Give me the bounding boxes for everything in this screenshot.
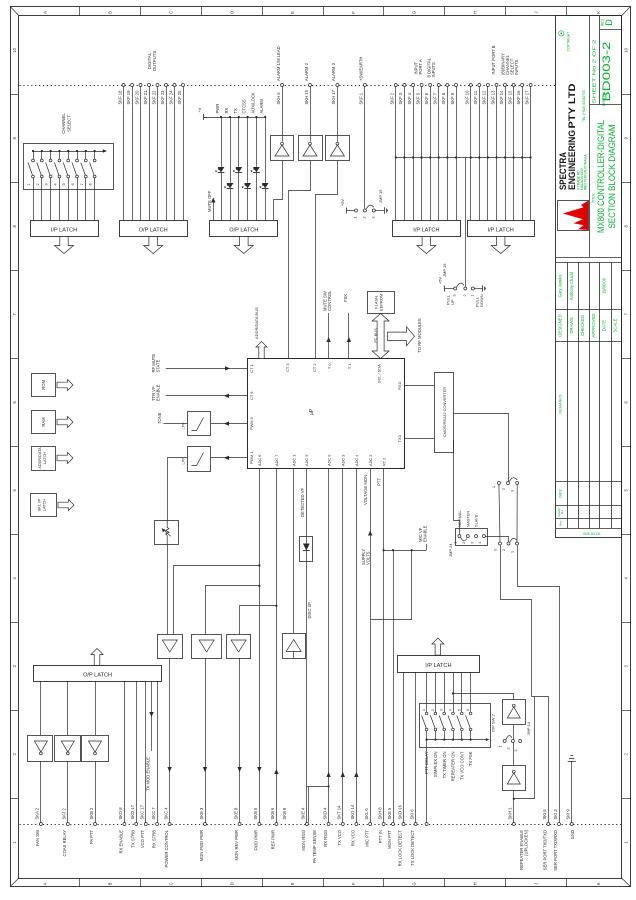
svg-text:ADC 2: ADC 2 [368, 455, 373, 466]
svg-text:TX STRB: TX STRB [130, 830, 135, 848]
svg-text:SKH 8: SKH 8 [377, 807, 382, 820]
wire switch 2 to I/P latch [41, 178, 43, 220]
svg-text:Gary Janeks: Gary Janeks [558, 275, 563, 298]
svg-text:SKE 4: SKE 4 [301, 807, 306, 820]
svg-text:ADC 3: ADC 3 [341, 455, 346, 466]
repeater enable buffer upper [503, 700, 526, 725]
svg-text:SKF 23: SKF 23 [160, 90, 165, 105]
svg-text:ALARM 2: ALARM 2 [304, 62, 309, 81]
wire SKH 17 to buffer [337, 87, 339, 142]
wire LPF to PWM 1 [211, 457, 247, 459]
wire repeater enable to buffer [454, 694, 514, 700]
svg-text:JMP 19: JMP 19 [442, 263, 447, 277]
svg-text:3: 3 [470, 542, 474, 544]
svg-text:LPF: LPF [181, 422, 186, 430]
svg-text:K: K [596, 882, 601, 885]
connector pin SKF 16 [521, 84, 524, 87]
dotted connector boundary line bottom [20, 824, 622, 826]
svg-text:19/06/06: 19/06/06 [602, 277, 607, 294]
svg-text:SECTION BLOCK DIAGRAM: SECTION BLOCK DIAGRAM [607, 125, 618, 229]
connector pin SKF 6 [429, 84, 432, 87]
connector pin SKF 23 [165, 84, 168, 87]
svg-text:B: B [108, 11, 113, 14]
wire switch 1 to I/P latch [33, 178, 35, 220]
svg-text:RX VCO: RX VCO [351, 829, 356, 846]
svg-text:GND: GND [570, 830, 575, 839]
svg-text:WESTERN AUSTRALIA: WESTERN AUSTRALIA [584, 154, 588, 190]
channel select switch 6 [76, 150, 78, 152]
svg-text:µP: µP [309, 408, 315, 415]
svg-text:VCO PTT: VCO PTT [140, 830, 145, 849]
wire uP ADC3 to TX VCO pin [342, 468, 344, 823]
svg-text:3: 3 [493, 549, 497, 551]
bus arrow below O/P latch (digital outputs) [144, 237, 163, 254]
svg-text:MON FWD PWR: MON FWD PWR [199, 830, 204, 861]
svg-text:SKI 3: SKI 3 [553, 809, 558, 820]
svg-text:SCL / SDA: SCL / SDA [377, 364, 382, 383]
channel select switch 8 [94, 150, 96, 152]
svg-text:SKL I/P: SKL I/P [38, 498, 42, 511]
svg-text:SELECT: SELECT [67, 115, 72, 132]
wire SKF 12 to I/P latch B [487, 87, 489, 221]
svg-text:POWER CONTROL: POWER CONTROL [164, 829, 169, 867]
wire RX LOCK DETECT to connector [403, 672, 405, 822]
connector pin SKB 5 FWD PWR [258, 823, 261, 826]
svg-text:T 1: T 1 [347, 364, 352, 370]
svg-text:B: B [108, 882, 113, 885]
wire ADC6 node to buffer A input [174, 566, 260, 635]
svg-text:SKL 6: SKL 6 [364, 808, 369, 820]
svg-text:C: C [169, 11, 174, 14]
svg-text:TX MOD ENABLE: TX MOD ENABLE [145, 757, 150, 791]
svg-text:SIZE A3 12L: SIZE A3 12L [583, 532, 601, 536]
connector pin SKD 8 RX ENABLE [123, 823, 126, 826]
svg-text:O/P LATCH: O/P LATCH [139, 228, 168, 234]
svg-text:ENABLE: ENABLE [422, 525, 427, 542]
wire SKF 22 to O/P latch [157, 87, 159, 221]
DIP common line [427, 739, 487, 741]
wire uP ADC5 to clamp diode [306, 468, 308, 536]
connector pin SKC 4 POWER CONTROL [168, 823, 171, 826]
connector pin SKF 18 [122, 84, 125, 87]
svg-text:LPF: LPF [181, 457, 186, 465]
svg-text:ENABLE: ENABLE [156, 384, 161, 401]
svg-text:I/P LATCH: I/P LATCH [413, 228, 439, 234]
connector pin SKF 9 [455, 84, 458, 87]
connector pin SKF 3 [403, 84, 406, 87]
svg-text:1: 1 [422, 709, 426, 711]
wire SKF 3 to I/P latch A [404, 87, 406, 221]
svg-text:ADC 0: ADC 0 [326, 454, 331, 466]
clamp diode box [300, 537, 313, 562]
bus arrow above O/P latch (control) [91, 649, 103, 666]
svg-text:+V: +V [198, 107, 202, 112]
svg-text:MON RSSI: MON RSSI [301, 830, 306, 851]
connector pin SKF 19 [131, 84, 134, 87]
wire buffer C output to MON REV PWR pin [239, 658, 241, 823]
svg-text:TX FSK: TX FSK [468, 751, 473, 766]
svg-text:2: 2 [431, 709, 435, 711]
svg-text:3: 3 [511, 490, 515, 492]
wire SKF 8 to I/P latch A [447, 87, 449, 221]
wire DISC I/P to connector [306, 562, 308, 823]
svg-text:RX STRB: RX STRB [151, 830, 156, 848]
svg-text:1: 1 [454, 542, 458, 544]
svg-text:SKF 10: SKF 10 [465, 90, 470, 105]
svg-text:+5V: +5V [439, 277, 443, 284]
wire SKF 17 to I/P latch B [530, 87, 532, 221]
svg-text:SKD 17: SKD 17 [130, 804, 135, 819]
RAM [32, 411, 56, 434]
svg-text:J: J [533, 883, 538, 885]
wire COAX RELAY buffer to connector [67, 761, 69, 822]
connector pin SKF 10 [469, 84, 472, 87]
svg-text:SKF 19: SKF 19 [126, 90, 131, 105]
svg-text:ALARM 3: ALARM 3 [331, 62, 336, 81]
svg-text:DISC I/P: DISC I/P [307, 602, 312, 618]
svg-text:ADC 1: ADC 1 [291, 455, 296, 466]
svg-text:10: 10 [624, 47, 629, 52]
svg-text:SKF 8: SKF 8 [441, 92, 446, 104]
PA TEMP SENSE stub wire [308, 786, 310, 822]
jumper JMP 15 [347, 210, 351, 212]
svg-text:4: 4 [478, 542, 482, 544]
channel select switch 5 [67, 150, 69, 152]
svg-text:DESIGNED: DESIGNED [558, 314, 563, 336]
svg-text:COAX RELAY: COAX RELAY [62, 830, 67, 857]
svg-text:MASTER: MASTER [465, 511, 470, 527]
svg-text:MUTE OFF: MUTE OFF [207, 190, 212, 212]
wire converter to JMP24 pin1 [454, 441, 460, 535]
connector pin SKD 16 RX LOCK DETECT [402, 823, 405, 826]
svg-text:SKC 17: SKC 17 [140, 804, 145, 819]
alarm3 buffer output wire to uP CT2 [316, 161, 338, 359]
branch DISC I/P to ADC0 wire [306, 786, 328, 788]
svg-text:PTY LTD: PTY LTD [567, 83, 578, 128]
svg-text:SER PORT TXD/TXD: SER PORT TXD/TXD [543, 830, 548, 870]
svg-text:SKB 6: SKB 6 [270, 807, 275, 820]
svg-text:ADDR/DATA BUS: ADDR/DATA BUS [254, 307, 259, 339]
microprocessor U5 [248, 359, 405, 469]
wire upper pin3 to lower pin1 [516, 485, 518, 543]
svg-text:SKF 4: SKF 4 [407, 92, 412, 104]
svg-text:COPYRIGHT: COPYRIGHT [566, 32, 570, 52]
svg-text:SKT 14: SKT 14 [337, 805, 342, 820]
PTT common node line [384, 550, 426, 552]
svg-text:SKF 5: SKF 5 [415, 92, 420, 104]
connector pin SKI 3 SER PORT TXD/RXD [558, 823, 561, 826]
wire TX LOCK DETECT to connector [415, 672, 417, 822]
connector pin SKF 12 [486, 84, 489, 87]
border corner diagonals [10, 6, 19, 16]
wire uP RT2 PTT down to PTT node [383, 468, 385, 550]
svg-text:4: 4 [449, 709, 453, 711]
svg-text:2: 2 [507, 748, 511, 750]
connector pin SKF 7 [437, 84, 440, 87]
connector pin SKF 2 [394, 84, 397, 87]
svg-text:TX LOCK DETECT: TX LOCK DETECT [410, 830, 415, 866]
O/P latch (LED indicators) [210, 221, 278, 237]
title block column dividers (lower) [567, 262, 569, 528]
connector pin SKF 17 [529, 84, 532, 87]
+V supply rail for LEDs [204, 117, 208, 119]
svg-text:4: 4 [53, 183, 57, 185]
svg-text:PORT A: PORT A [418, 59, 423, 74]
wire latch to FAN SW buffer [40, 681, 42, 735]
I/P latch (channel select) [31, 221, 99, 237]
svg-text:SIMPLEX ON: SIMPLEX ON [433, 752, 438, 778]
svg-text:No: No [560, 510, 564, 514]
attenuator (level pot) [155, 521, 179, 545]
svg-text:SKF 15: SKF 15 [507, 90, 512, 105]
svg-text:DRG No: DRG No [602, 92, 606, 106]
connector pin SKF 14 [504, 84, 507, 87]
wire SKF 11 to I/P latch B [479, 87, 481, 221]
svg-text:REMARKS: REMARKS [558, 394, 563, 414]
svg-text:ROM: ROM [41, 379, 46, 389]
svg-text:CT 3: CT 3 [285, 364, 290, 372]
grid reference numbers left/right edges [10, 94, 19, 96]
svg-text:FSK: FSK [343, 294, 348, 302]
wire SKF 7 to I/P latch A [438, 87, 440, 221]
connector pin SKF 8 [446, 84, 449, 87]
svg-text:MIC PTT: MIC PTT [364, 830, 369, 847]
jumper (serial) upper [497, 482, 500, 485]
title block vertical dividers [589, 16, 591, 257]
svg-text:SKF 18: SKF 18 [117, 90, 122, 105]
svg-text:DIP SW 2: DIP SW 2 [491, 713, 496, 731]
svg-text:PTT: PTT [377, 478, 382, 486]
svg-text:SKF 13: SKF 13 [490, 90, 495, 105]
connector pin SKF 20 [139, 84, 142, 87]
svg-text:SKH 1: SKH 1 [508, 807, 513, 820]
CMOS/RS232 converter U7 [435, 373, 454, 453]
flash eeprom U6 [368, 292, 395, 314]
svg-text:G: G [412, 882, 417, 885]
svg-text:1: 1 [27, 183, 31, 185]
wire attenuator to line buffer A [167, 544, 169, 634]
svg-text:RX LOCK DETECT: RX LOCK DETECT [398, 830, 403, 867]
svg-text:SKH 5: SKH 5 [276, 92, 281, 105]
svg-text:INPUTS: INPUTS [431, 62, 436, 78]
connector pin SKF 4 [412, 84, 415, 87]
ground symbol (SKI 9) [571, 761, 573, 823]
connector pin SKF 25 [182, 84, 185, 87]
wire latch to DIP switch 3 [444, 672, 446, 712]
svg-text:D: D [229, 11, 234, 14]
svg-text:SKD 4: SKD 4 [322, 807, 327, 820]
channel select switch 7 [85, 150, 87, 152]
I/P latch (input port B) [468, 221, 535, 237]
svg-text:SKH 15: SKH 15 [304, 89, 309, 104]
wire PTT IN to connector [383, 550, 385, 822]
svg-text:10: 10 [12, 47, 17, 52]
svg-text:TEL (+618) 92482755: TEL (+618) 92482755 [582, 90, 586, 122]
svg-text:AUX/LOCK: AUX/LOCK [250, 92, 255, 113]
svg-text:RX: RX [224, 107, 229, 113]
svg-text:CT 2: CT 2 [312, 364, 317, 372]
wire lower pin3 to SER PORT TXD/TXD [501, 546, 532, 697]
svg-text:MON PTT: MON PTT [387, 830, 392, 849]
output buffer PA PTT [82, 736, 109, 762]
svg-text:TITLE: TITLE [592, 193, 596, 203]
svg-text:3: 3 [453, 295, 457, 297]
svg-text:3: 3 [514, 750, 518, 752]
wire uP ADC4 to RX VCO pin [356, 468, 358, 823]
repeater enable buffer lower [503, 766, 526, 791]
svg-text:NORMAL: NORMAL [457, 510, 462, 527]
junction repeater enable [452, 692, 454, 694]
wire upper pin1 to lower pin3 [499, 485, 500, 543]
svg-text:UP: UP [450, 299, 455, 305]
svg-text:2: 2 [463, 295, 467, 297]
connector pin SKC 7 RX STRB [156, 823, 159, 826]
connector pin SKF 24 [173, 84, 176, 87]
MIC VF ENABLE stub [426, 544, 428, 550]
svg-text:A: A [42, 882, 47, 885]
wire RX STRB to connector [157, 681, 159, 822]
svg-text:SCALE: SCALE [613, 318, 618, 332]
alarm1 buffer output wire to LED latch [274, 161, 283, 221]
svg-text:I/P LATCH: I/P LATCH [425, 663, 451, 669]
wire SKH 5 to buffer [282, 87, 284, 142]
svg-text:SKF 21: SKF 21 [143, 90, 148, 105]
svg-text:SKB 8: SKB 8 [282, 807, 287, 820]
svg-text:RXD: RXD [397, 381, 402, 389]
svg-text:G: G [412, 11, 417, 14]
svg-text:CT 1: CT 1 [249, 364, 254, 372]
buffer U3 (ALARM 3) [326, 136, 350, 161]
wire SKF 1 to JMP15 pin 2 [364, 87, 366, 209]
svg-text:LATCH: LATCH [43, 499, 47, 511]
svg-text:SKF 16: SKF 16 [516, 90, 521, 105]
svg-text:SKB 2: SKB 2 [89, 807, 94, 820]
connector pin SKI 6 TX LOCK DETECT [414, 823, 417, 826]
svg-text:ADC 4: ADC 4 [354, 454, 359, 466]
wire ADC6 node to buffer B input [206, 586, 260, 635]
connector pin SKH 1 REPEATER ENABLE [512, 823, 515, 826]
svg-text:2: 2 [36, 183, 40, 185]
svg-text:VOLTS: VOLTS [365, 551, 370, 565]
wire SKF 16 to I/P latch B [522, 87, 524, 221]
svg-text:Rev: Rev [559, 520, 563, 526]
wire ADC7 to REF PWR pin [276, 468, 278, 823]
svg-text:REPEATER ON: REPEATER ON [451, 752, 456, 782]
wire switch 4 to I/P latch [59, 178, 61, 220]
svg-text:SKF 2: SKF 2 [390, 92, 395, 104]
svg-text:TX VCO CONT: TX VCO CONT [459, 751, 464, 780]
svg-text:SKF 24: SKF 24 [168, 90, 173, 105]
wire MON PTT to connector [393, 550, 395, 822]
connector pin SKG 14 RX VCO [355, 823, 358, 826]
wire SKF 18 to O/P latch [123, 87, 125, 221]
line buffer B [192, 635, 222, 659]
SKL I/P latch [31, 494, 57, 517]
wire converter RS232 out to jumper [454, 414, 509, 482]
svg-text:SKC 4: SKC 4 [163, 807, 168, 820]
svg-text:1: 1 [492, 486, 496, 488]
svg-text:RAM: RAM [41, 417, 46, 427]
svg-text:SKG 14: SKG 14 [350, 804, 355, 819]
grid reference letters top/bottom edges [79, 6, 81, 16]
connector pin SKI 5 SER PORT TXD/TXD [547, 823, 550, 826]
connector pin SKA 2 FAN SW [39, 823, 42, 826]
ground (JMP19 pin 1) [480, 288, 483, 290]
svg-text:5: 5 [62, 183, 66, 185]
wire buffer A output to POWER CONTROL pin [169, 658, 171, 823]
wire buffer D output to uP ADC1 [293, 468, 295, 633]
svg-text:+5V: +5V [341, 199, 345, 206]
channel select common bus [33, 151, 103, 153]
svg-text:SKI 9: SKI 9 [566, 809, 571, 820]
ADDR/DATA latch [32, 447, 56, 471]
copyright notice [559, 31, 564, 36]
svg-text:JMP 24: JMP 24 [448, 543, 453, 557]
wire SKF 20 to O/P latch [140, 87, 142, 221]
bus arrow above I/P latch (status) [432, 638, 444, 655]
svg-text:CHANNEL: CHANNEL [61, 113, 66, 134]
wire SKF 21 to O/P latch [149, 87, 151, 221]
connector pin SKB 2 PA PTT [94, 823, 97, 826]
svg-text:SKI 5: SKI 5 [542, 809, 547, 820]
connector pin SKF 15 [512, 84, 515, 87]
svg-text:INPUT PORT B: INPUT PORT B [491, 45, 496, 74]
svg-text:3: 3 [45, 183, 49, 185]
connector pin SKF 13 [495, 84, 498, 87]
branch to repeater enable node [514, 697, 535, 799]
wire LPF tx audio output down to attenuator [168, 458, 188, 521]
jumper (serial) lower [499, 542, 502, 545]
svg-text:INPUTS: INPUTS [514, 59, 519, 75]
svg-text:D: D [604, 19, 614, 26]
connector pin SKF 5 [420, 84, 423, 87]
wire TX STRB to connector [136, 681, 138, 822]
ROM [32, 374, 56, 397]
svg-text:8: 8 [89, 183, 93, 185]
svg-text:SKF 12: SKF 12 [482, 90, 487, 105]
svg-text:TX VCO: TX VCO [337, 829, 342, 845]
wire uP ADC2 voltage mon / supply volts [370, 468, 372, 823]
svg-text:MON REV PWR: MON REV PWR [234, 830, 239, 860]
wire SKH 15 to buffer [310, 87, 312, 142]
svg-text:2: 2 [362, 217, 366, 219]
channel select switch box [24, 144, 114, 190]
wire JMP24 pin4 to lower jumper pin2 [485, 536, 508, 538]
svg-text:DATE: DATE [602, 320, 607, 331]
svg-text:FAN SW: FAN SW [35, 830, 40, 846]
svg-text:SLAVE: SLAVE [474, 514, 479, 527]
wire latch to PA PTT buffer [95, 681, 97, 735]
svg-text:2: 2 [462, 542, 466, 544]
wire latch to DIP switch 5 [461, 672, 463, 712]
svg-text:DOWN: DOWN [479, 294, 484, 307]
svg-text:RX RSSI: RX RSSI [323, 830, 328, 847]
jumper JMP 24 box [456, 529, 488, 546]
wire latch to DIP switch 4 [453, 672, 455, 712]
svg-text:SKF 11: SKF 11 [473, 90, 478, 104]
wire VCO PTT to connector [145, 681, 147, 822]
svg-text:CTCSS: CTCSS [242, 99, 247, 113]
connector pin SKF 11 [478, 84, 481, 87]
svg-text:VOLTAGE MON: VOLTAGE MON [363, 475, 368, 505]
svg-text:TXD: TXD [397, 434, 402, 442]
wire switch 5 to I/P latch [68, 178, 70, 220]
connector pin DIP common [425, 823, 428, 826]
wire SKF 23 to O/P latch [166, 87, 168, 221]
wire latch to DIP switch 1 [426, 672, 428, 712]
connector pin SKJ 2 COAX RELAY [66, 823, 69, 826]
wire FAN SW buffer to connector [40, 761, 42, 822]
